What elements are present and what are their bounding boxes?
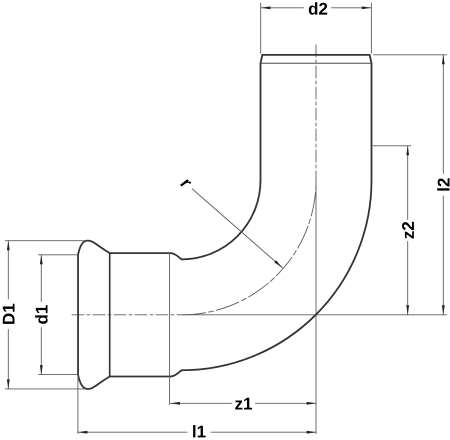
bead junction line <box>109 253 111 376</box>
dimension d2 line <box>261 7 371 9</box>
pipe left edge <box>261 55 263 181</box>
pipe right edge <box>370 55 372 181</box>
taper top <box>171 253 182 259</box>
label l2 <box>437 178 449 190</box>
socket face line <box>77 255 79 375</box>
dimension z2 line <box>407 146 409 315</box>
d2 arrows <box>261 6 371 9</box>
dimension d1 extension lines <box>38 255 78 375</box>
d1 arrows <box>40 255 43 375</box>
label z1 <box>235 398 252 410</box>
dimension z2 extension (top) <box>372 145 411 147</box>
l2 arrows <box>442 55 445 315</box>
z1 arrows <box>171 402 317 405</box>
label r <box>180 178 191 190</box>
centerline bend arc <box>182 181 316 315</box>
outer bend arc <box>182 181 372 371</box>
l1 arrows <box>78 431 316 434</box>
dimension d2 extension lines <box>261 3 372 53</box>
dimension D1 extension lines <box>5 241 85 389</box>
taper bottom <box>171 370 182 376</box>
dimension z1 line <box>171 402 317 404</box>
bead bottom <box>78 375 110 389</box>
dimension d1 line <box>40 255 42 375</box>
label d2 <box>309 2 327 14</box>
pipe top edge <box>262 54 369 56</box>
dimension D1 line <box>7 241 9 389</box>
vertical centerline (pipe axis, also z1/l1 extension) <box>315 45 317 181</box>
bead top <box>78 241 110 255</box>
radius r leader line <box>192 189 282 268</box>
horizontal centerline (socket axis) <box>72 314 447 316</box>
socket depth line + z1 extension <box>169 253 171 405</box>
label d1 <box>35 305 47 324</box>
pipe chamfer line <box>261 62 371 64</box>
label D1 <box>3 304 15 324</box>
D1 arrows <box>7 241 10 389</box>
inner bend arc <box>182 181 261 260</box>
dimension l1 extension (left) <box>77 376 79 434</box>
r leader arrow <box>274 260 283 268</box>
socket cylinder bottom <box>110 376 171 378</box>
z2 arrows <box>406 146 409 315</box>
dimension l1 line <box>78 431 316 433</box>
label z2 <box>402 222 414 239</box>
socket cylinder top <box>110 252 171 254</box>
dimension l2 extension (top) <box>374 54 447 56</box>
label l1 <box>193 425 206 437</box>
dimension l2 line <box>442 55 444 315</box>
